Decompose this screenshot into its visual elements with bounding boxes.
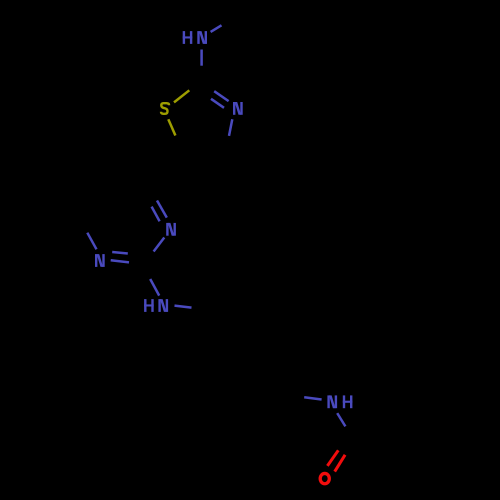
bond thiazole N3-C4 half <box>229 119 232 136</box>
bond pyrimidine C2-NH(linker) half <box>150 279 159 296</box>
bond pyrimidine C4=N3 main line half <box>157 201 167 218</box>
bond pyrimidine N3-C2 half <box>154 238 165 252</box>
bond NH(linker)-CH2 half <box>175 306 192 308</box>
bond pyrimidine N1=C2 inner line half <box>112 252 128 254</box>
atom label H of HN (methylamino) <box>183 31 193 44</box>
atom label O carbonyl <box>320 473 329 483</box>
atom label S thiazole S1 <box>161 103 169 114</box>
atom label N pyrimidine N3 <box>166 223 176 236</box>
bond thiazole C2=N3 main line half <box>214 91 228 101</box>
atom label N thiazole N3 <box>233 102 243 115</box>
bond thiazole C2=N3 inner line half <box>211 99 224 108</box>
atom label N pyrimidine N1 <box>95 254 105 267</box>
atom label H of HN linker <box>144 299 154 312</box>
bond N(methylamino)-CH3 half <box>211 25 222 32</box>
bond N(methylamino)-C2(thiazole) half <box>200 50 203 66</box>
bond thiazole S1-C2 half <box>174 90 189 102</box>
bond C=O line2 half <box>335 455 345 472</box>
atom label N of HN linker <box>158 299 168 312</box>
bond CH2-NH(amide) half <box>304 397 321 399</box>
bond C=O line1 half <box>327 450 338 466</box>
bond pyrimidine N1=C2 main line half <box>111 260 129 262</box>
atom label N of HN (methylamino) <box>197 31 207 44</box>
bond pyrimidine C4=N3 inner line half <box>152 207 160 222</box>
atom label H of NH amide <box>343 395 353 408</box>
bond NH(amide)-C(carbonyl) half <box>337 413 345 426</box>
bond pyrimidine N1-C6 half <box>87 233 96 250</box>
bond thiazole S1-C5 half <box>168 119 175 135</box>
atom label N of NH amide <box>327 395 337 408</box>
